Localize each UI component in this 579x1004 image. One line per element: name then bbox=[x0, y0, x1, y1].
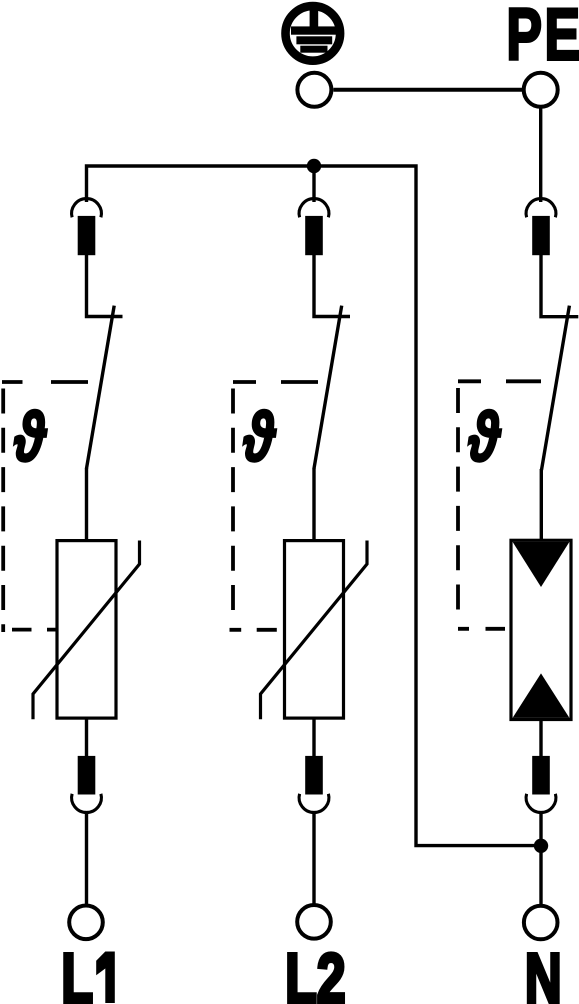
disconnector arc N bottom bbox=[526, 794, 556, 813]
gas discharge tube N body bbox=[511, 540, 571, 719]
terminal N bbox=[524, 906, 558, 940]
gas discharge tube N top electrode bbox=[513, 542, 570, 587]
fuse element L1 bottom bbox=[78, 756, 96, 795]
node N junction bbox=[534, 839, 548, 853]
terminal PE bbox=[524, 73, 558, 107]
earth symbol bar 2 bbox=[296, 36, 332, 44]
thermal disconnect box N top dash bbox=[458, 379, 541, 383]
disconnector arc L2 top bbox=[299, 199, 329, 218]
varistor L2 body bbox=[285, 541, 344, 719]
svg-text:PE: PE bbox=[506, 0, 579, 75]
disconnector arc L2 bottom bbox=[299, 794, 329, 813]
wire L1 varistor to fuse bbox=[85, 718, 88, 757]
wire L1 to switch bbox=[87, 253, 123, 317]
switch blade L1 bbox=[87, 306, 115, 469]
thermal disconnect box N left dash bbox=[456, 388, 460, 613]
protective earth symbol bbox=[286, 6, 341, 61]
earth symbol bar 1 bbox=[291, 26, 337, 34]
svg-text:ϑ: ϑ bbox=[243, 399, 276, 477]
earth symbol stem bbox=[310, 9, 319, 31]
wire L2 to switch bbox=[314, 253, 350, 317]
gas discharge tube N bottom electrode bbox=[513, 673, 570, 718]
terminal L1 bbox=[69, 906, 103, 940]
thermal disconnect box L1 left dash bbox=[1, 389, 5, 633]
thermal disconnect box L1 bottom dash bbox=[12, 628, 58, 632]
disconnector arc L1 bottom bbox=[72, 794, 102, 813]
thermal disconnect box N bottom dash bbox=[458, 627, 505, 631]
wire N blade to arrester bbox=[540, 469, 543, 542]
varistor L1 body bbox=[57, 541, 116, 719]
wire N to terminal bbox=[539, 811, 542, 905]
terminal L2 bbox=[297, 905, 331, 939]
fuse element L2 top bbox=[305, 216, 323, 255]
wire L1 to terminal bbox=[85, 811, 88, 905]
disconnector arc N top bbox=[526, 199, 556, 218]
wire top bus and equipotential line bbox=[87, 166, 542, 846]
varistor L2 diagonal bbox=[261, 541, 368, 720]
node bus junction bbox=[307, 159, 321, 173]
wire L2 varistor to fuse bbox=[312, 718, 315, 757]
switch blade N bbox=[542, 306, 570, 470]
thermal disconnect box L1 top dash bbox=[2, 380, 88, 384]
wire earth-PE link bbox=[333, 88, 523, 92]
wire N arrester to fuse bbox=[539, 719, 542, 757]
svg-text:L: L bbox=[61, 940, 93, 1004]
fuse element L1 top bbox=[78, 216, 96, 255]
wire L2 to terminal bbox=[312, 811, 315, 905]
earth symbol bar 3 bbox=[300, 46, 327, 53]
thermal disconnect box L2 left dash bbox=[231, 389, 235, 614]
thermal disconnect box L2 top dash bbox=[233, 380, 318, 384]
disconnector arc L1 top bbox=[72, 199, 102, 218]
svg-text:L2: L2 bbox=[285, 938, 346, 1004]
wire PE down bbox=[539, 107, 542, 202]
wire branch L2 top bbox=[312, 166, 315, 202]
wire L2 blade to varistor bbox=[312, 468, 315, 542]
fuse element N bottom bbox=[532, 756, 550, 795]
fuse element L2 bottom bbox=[305, 756, 323, 795]
varistor L1 diagonal bbox=[33, 541, 140, 720]
svg-text:N: N bbox=[525, 939, 562, 1004]
svg-text:ϑ: ϑ bbox=[14, 399, 47, 477]
label L1 digit 1 bbox=[96, 952, 115, 1004]
terminal earth bbox=[297, 73, 331, 107]
thermal disconnect box L2 bottom dash bbox=[230, 628, 277, 632]
fuse element N top bbox=[532, 216, 550, 255]
wire L1 blade to varistor bbox=[85, 468, 88, 542]
wire N to switch bbox=[541, 253, 578, 317]
svg-text:ϑ: ϑ bbox=[468, 399, 501, 477]
switch blade L2 bbox=[314, 306, 342, 469]
